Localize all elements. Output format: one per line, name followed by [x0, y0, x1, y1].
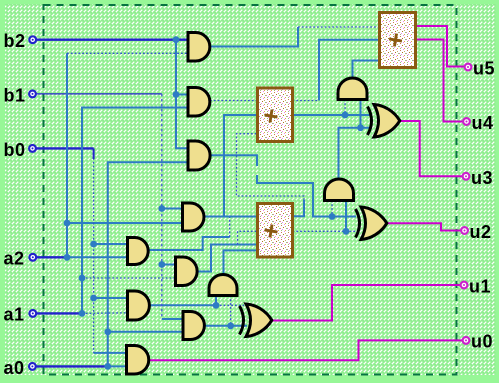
svg-text:a1: a1: [4, 305, 25, 325]
svg-text:b1: b1: [4, 86, 26, 106]
svg-text:u5: u5: [473, 59, 495, 79]
svg-text:u2: u2: [470, 222, 492, 242]
svg-text:a0: a0: [4, 358, 25, 378]
svg-text:u3: u3: [471, 168, 493, 188]
svg-text:u0: u0: [471, 332, 493, 352]
svg-text:b0: b0: [4, 140, 26, 160]
svg-text:u1: u1: [469, 277, 491, 297]
svg-text:a2: a2: [4, 249, 25, 269]
svg-text:u4: u4: [472, 113, 494, 133]
svg-text:b2: b2: [4, 31, 26, 51]
